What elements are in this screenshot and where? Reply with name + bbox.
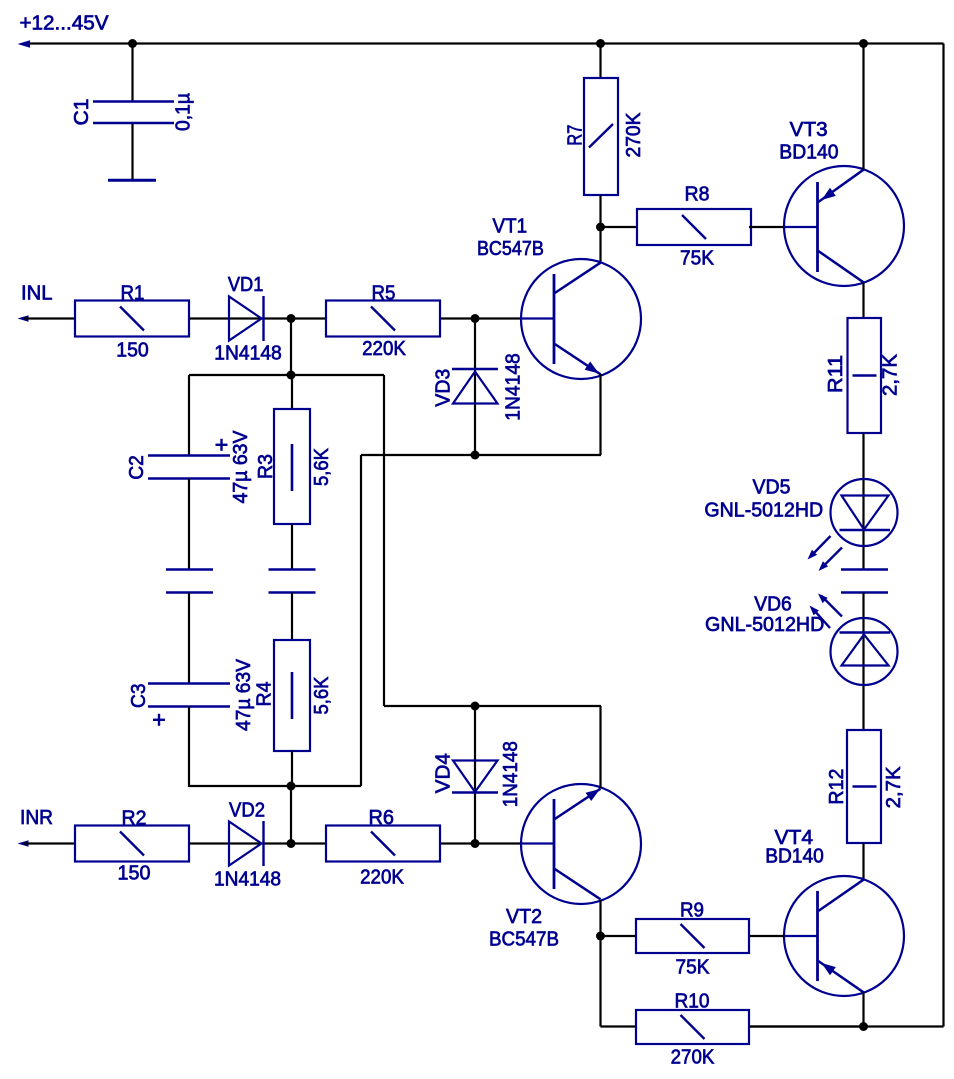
- wire C2 to break: [188, 479, 190, 570]
- svg-text:47µ 63V: 47µ 63V: [230, 430, 252, 504]
- capacitor C2: [148, 454, 230, 457]
- wire under VD2: [229, 842, 326, 844]
- wire R11 to VD5: [862, 433, 864, 569]
- node junction R7 rail: [596, 39, 605, 48]
- svg-text:VD1: VD1: [228, 274, 264, 296]
- node junction VD1-R5: [287, 314, 296, 323]
- wire VT2 collector down: [599, 900, 601, 1027]
- wire R3 to break: [291, 524, 293, 569]
- resistor R7: [584, 78, 618, 195]
- svg-text:220K: 220K: [360, 867, 404, 889]
- wire R10 right: [749, 1025, 864, 1027]
- wire break to R4: [291, 593, 293, 641]
- svg-text:INL: INL: [21, 283, 53, 305]
- svg-text:R8: R8: [685, 184, 710, 206]
- wire R2 to VD2: [189, 842, 229, 844]
- wire R12 to VT4: [862, 843, 864, 880]
- break marks middle pair: [269, 568, 316, 570]
- svg-text:75K: 75K: [680, 248, 715, 270]
- svg-text:2,7K: 2,7K: [880, 353, 902, 396]
- svg-text:BD140: BD140: [779, 142, 838, 164]
- LED VD6: [831, 618, 898, 685]
- svg-text:BC547B: BC547B: [477, 238, 544, 260]
- wire corner to R10: [601, 1025, 637, 1027]
- svg-text:R11: R11: [825, 355, 847, 393]
- power arrow: [18, 40, 31, 48]
- wire node to R8: [601, 226, 638, 228]
- svg-text:R10: R10: [675, 991, 710, 1013]
- wire R9 to VT4 base: [749, 935, 785, 937]
- resistor R10: [636, 1010, 749, 1044]
- wire VT3 emitter up: [862, 44, 864, 170]
- svg-text:+12...45V: +12...45V: [20, 13, 110, 35]
- node junction VD2-R6: [287, 839, 296, 848]
- svg-text:BD140: BD140: [765, 846, 824, 868]
- wire under VD1: [229, 317, 326, 319]
- wire R8 to VT3 base: [749, 226, 785, 228]
- svg-text:VT1: VT1: [493, 215, 528, 237]
- wire INL lead: [24, 317, 75, 319]
- svg-text:47µ 63V: 47µ 63V: [233, 658, 255, 731]
- resistor R11: [848, 318, 882, 433]
- resistor R4: [274, 640, 310, 751]
- node junction VD4 top: [471, 702, 480, 711]
- INR arrow: [18, 840, 29, 847]
- wire VT2 emitter up: [599, 706, 601, 788]
- wire break to C3: [188, 593, 190, 684]
- INL arrow: [18, 315, 29, 322]
- svg-text:VD6: VD6: [754, 594, 792, 616]
- svg-text:5,6K: 5,6K: [311, 447, 333, 486]
- wire VD3 stem: [474, 319, 476, 456]
- resistor R6: [326, 826, 440, 862]
- svg-text:GNL-5012HD: GNL-5012HD: [705, 614, 824, 636]
- svg-text:VD3: VD3: [433, 369, 455, 407]
- ground: [108, 179, 156, 182]
- svg-text:R4: R4: [254, 682, 276, 707]
- svg-text:150: 150: [118, 863, 151, 885]
- wire C1 bottom lead: [131, 124, 133, 179]
- svg-text:5,6K: 5,6K: [311, 676, 333, 715]
- svg-text:1N4148: 1N4148: [500, 741, 522, 807]
- wire C1 top lead: [131, 44, 133, 102]
- wire R3 top lead: [291, 375, 293, 409]
- VD5 light arrows: [811, 536, 831, 557]
- svg-text:R12: R12: [826, 769, 848, 805]
- node junction R7-R8-VT1: [596, 223, 605, 232]
- wire INR lead: [24, 842, 75, 844]
- node junction R5-VD3-VT1: [471, 314, 480, 323]
- wire B vertical x361: [360, 455, 362, 786]
- diode VD3: [452, 368, 498, 370]
- wire top +V rail: [24, 42, 944, 44]
- svg-text:C1: C1: [71, 99, 93, 126]
- svg-text:C3: C3: [128, 683, 150, 708]
- svg-text:2,7K: 2,7K: [883, 766, 905, 809]
- svg-text:1N4148: 1N4148: [214, 343, 282, 365]
- wire VD1 node down: [290, 319, 292, 376]
- wire between breaks to VD6: [862, 593, 864, 730]
- wire R1 to VD1: [189, 317, 229, 319]
- wire lower emitter rail y706: [384, 705, 601, 707]
- capacitor C1: [93, 100, 174, 103]
- node junction VT2-R9-R10: [596, 932, 605, 941]
- wire left chain upper: [188, 375, 190, 456]
- diode VD2: [229, 822, 262, 866]
- wire VT4 emitter down: [862, 993, 864, 1027]
- VD6 light arrows: [813, 609, 831, 629]
- node junction VD3 bottom: [471, 451, 480, 460]
- svg-text:GNL-5012HD: GNL-5012HD: [704, 500, 823, 522]
- svg-text:R5: R5: [372, 282, 396, 304]
- node junction R3 top: [287, 371, 296, 380]
- svg-text:1N4148: 1N4148: [214, 869, 281, 891]
- svg-text:270K: 270K: [623, 112, 645, 158]
- svg-text:BC547B: BC547B: [489, 929, 559, 951]
- wire node down to INR row: [290, 786, 292, 844]
- transistor VT1: [521, 259, 641, 379]
- svg-text:C2: C2: [126, 455, 148, 480]
- svg-text:VT2: VT2: [506, 906, 542, 928]
- LED VD5: [831, 479, 898, 546]
- svg-text:R1: R1: [121, 282, 145, 304]
- transistor VT4: [784, 876, 904, 996]
- svg-text:150: 150: [116, 340, 149, 362]
- wire VT3 collector down: [862, 283, 864, 319]
- wire upper emitter rail y455: [361, 454, 601, 456]
- wire R6 to VT2 base: [441, 842, 521, 844]
- svg-text:R7: R7: [565, 125, 587, 146]
- diode VD4: [453, 761, 498, 793]
- svg-text:VT3: VT3: [790, 119, 828, 141]
- svg-text:75K: 75K: [676, 957, 711, 979]
- transistor VT3: [784, 166, 904, 286]
- node junction bottom right: [859, 1022, 868, 1031]
- node junction VT3 rail: [859, 39, 868, 48]
- svg-text:VD2: VD2: [229, 800, 265, 822]
- resistor R2: [75, 826, 189, 862]
- resistor R12: [847, 730, 881, 843]
- svg-text:270K: 270K: [671, 1047, 715, 1069]
- wire bottom-left rail y786: [189, 785, 361, 787]
- capacitor C3: [148, 682, 230, 685]
- svg-text:VD5: VD5: [753, 477, 791, 499]
- wire C3 to bottom rail: [188, 707, 190, 788]
- svg-text:0,1µ: 0,1µ: [173, 93, 195, 131]
- svg-text:VD4: VD4: [433, 753, 455, 793]
- svg-text:1N4148: 1N4148: [503, 353, 525, 421]
- node junction R6-VD4-VT2: [471, 839, 480, 848]
- wire R7 top lead: [599, 44, 601, 79]
- transistor VT2: [521, 784, 641, 904]
- wire right vertical rail: [942, 44, 944, 1027]
- break marks LED pair: [841, 568, 888, 570]
- node junction C1 rail: [128, 39, 137, 48]
- node junction R4 bottom: [287, 782, 296, 791]
- break marks left pair: [166, 568, 213, 570]
- svg-text:R2: R2: [122, 807, 147, 829]
- wire node to R9: [601, 935, 637, 937]
- wire VT1 emitter down: [599, 374, 601, 455]
- resistor R8: [637, 209, 751, 245]
- resistor R9: [636, 919, 749, 953]
- svg-text:INR: INR: [20, 807, 53, 829]
- svg-text:R6: R6: [368, 807, 394, 829]
- wire R5 to VT1 base: [441, 317, 521, 319]
- wire VD4 stem: [474, 706, 476, 844]
- resistor R1: [75, 301, 189, 337]
- wire R4 bottom lead: [291, 751, 293, 786]
- wire mid top rail y375: [189, 374, 384, 376]
- wire R7 bottom / VT1 collector: [599, 195, 601, 263]
- resistor R5: [326, 301, 440, 337]
- wire bottom rail: [749, 1025, 944, 1027]
- svg-text:220K: 220K: [362, 338, 406, 360]
- svg-text:R9: R9: [680, 900, 704, 922]
- diode VD1: [229, 297, 262, 341]
- wire A vertical x384: [383, 375, 385, 706]
- svg-text:R3: R3: [255, 454, 277, 479]
- resistor R3: [274, 409, 310, 524]
